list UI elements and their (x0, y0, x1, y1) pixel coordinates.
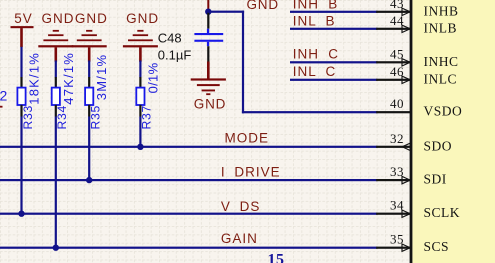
svg-text:INH B: INH B (293, 0, 339, 12)
pin 43 INHB (376, 0, 458, 18)
pin 44 INLB (376, 13, 457, 36)
svg-text:R37: R37 (140, 105, 154, 129)
svg-text:32: 32 (390, 131, 404, 146)
resistor R37 body (136, 88, 144, 105)
clipped mark (left edge) (0, 106, 3, 108)
svg-text:0/1%: 0/1% (145, 62, 160, 93)
svg-text:MODE: MODE (225, 131, 270, 146)
capacitor C48 plate2 (194, 40, 223, 42)
svg-text:SCLK: SCLK (424, 205, 461, 220)
power stub to GND (below C48) (207, 62, 210, 79)
svg-text:I DRIVE: I DRIVE (221, 165, 281, 180)
ground GND (above R35) (72, 11, 108, 62)
ground GND (above R37) (123, 11, 159, 62)
svg-text:V DS: V DS (221, 199, 261, 214)
wire R35 to I_DRIVE (88, 117, 90, 182)
svg-text:GND: GND (42, 11, 75, 26)
wire R34 to GAIN (55, 117, 57, 249)
wire 5V to R33 (20, 47, 22, 78)
svg-text:INL B: INL B (293, 13, 336, 28)
pin C48.1 (207, 12, 209, 29)
ground GND (above R34) (38, 11, 74, 62)
svg-text:INL C: INL C (293, 64, 337, 79)
resistor R34 body (52, 88, 60, 105)
wire GND to R34 (55, 61, 57, 78)
wire INL_B net (290, 28, 378, 30)
pin R35.2 (88, 105, 90, 117)
wire VSDO net (vertical) (242, 11, 244, 114)
svg-text:5V: 5V (14, 11, 33, 26)
junction C48/VSDO (205, 9, 211, 15)
svg-text:GND: GND (194, 96, 226, 111)
wire INH_B net (290, 11, 378, 13)
svg-text:INLC: INLC (424, 71, 458, 86)
pin 46 INLC (376, 64, 457, 87)
svg-text:SCS: SCS (424, 239, 450, 254)
capacitor C48 lead1 (207, 29, 209, 34)
resistor R33 body (17, 88, 25, 105)
capacitor C48 lead2 (207, 42, 209, 46)
pin 33 SDI (376, 164, 447, 187)
pin R34.1 (55, 77, 57, 88)
svg-text:INLB: INLB (424, 20, 458, 35)
junction R35/I_DRIVE (86, 177, 92, 183)
pin R33.1 (20, 77, 22, 88)
svg-text:3M/1%: 3M/1% (94, 54, 109, 100)
svg-text:47K/1%: 47K/1% (61, 52, 76, 105)
svg-text:2: 2 (0, 88, 8, 104)
svg-text:GND: GND (75, 11, 108, 26)
svg-text:15: 15 (268, 252, 285, 263)
svg-text:R34: R34 (55, 105, 69, 129)
pin 45 INHC (376, 46, 458, 69)
svg-text:INHB: INHB (424, 3, 459, 18)
wire GND to R37 (139, 61, 141, 78)
IC U1 left border (410, 0, 413, 263)
wire GAIN net (0, 247, 378, 249)
pin C48.2 (207, 46, 209, 61)
svg-text:INH C: INH C (293, 46, 339, 61)
pin 34 SCLK (376, 198, 460, 221)
capacitor C48 plate1 (194, 33, 223, 35)
pin 40 VSDO (376, 96, 462, 119)
junction R34/GAIN (53, 245, 59, 251)
wire R37 to MODE (139, 117, 141, 148)
wire V_DS net (0, 213, 378, 215)
pin R37.1 (139, 77, 141, 88)
svg-text:INHC: INHC (424, 54, 459, 69)
wire INL_C net (290, 79, 378, 81)
IC U1 body (412, 0, 495, 263)
svg-text:GAIN: GAIN (221, 231, 258, 246)
svg-text:40: 40 (390, 96, 404, 111)
wire I_DRIVE net (0, 179, 378, 181)
power stub GND (top) (207, 0, 209, 12)
svg-text:GND: GND (126, 11, 159, 26)
wire GND to R35 (88, 61, 90, 78)
pin 35 SCS (376, 232, 449, 255)
svg-text:R33: R33 (21, 105, 35, 129)
wire VSDO net (junction to corner) (207, 11, 244, 13)
wire VSDO net (to pin 40) (242, 111, 378, 113)
wire R33 to V_DS (20, 117, 22, 215)
wire INH_C net (290, 61, 378, 63)
svg-text:VSDO: VSDO (424, 104, 463, 119)
junction R33/V_DS (18, 211, 24, 217)
pin 32 SDO (376, 131, 452, 154)
wire MODE net (0, 146, 378, 148)
pin R34.2 (55, 105, 57, 117)
svg-text:18K/1%: 18K/1% (27, 52, 42, 105)
svg-text:SDI: SDI (424, 172, 447, 187)
pin R35.1 (88, 77, 90, 88)
junction R37/MODE (137, 144, 143, 150)
resistor R35 body (85, 88, 93, 105)
svg-text:R35: R35 (89, 105, 103, 129)
svg-text:0.1µF: 0.1µF (158, 48, 192, 63)
power symbol 5V (11, 11, 34, 47)
ground GND (below C48) (191, 78, 227, 111)
svg-text:SDO: SDO (424, 138, 453, 153)
pin R33.2 (20, 105, 22, 117)
svg-text:C48: C48 (158, 30, 182, 45)
svg-text:GND: GND (247, 0, 279, 12)
pin R37.2 (139, 105, 141, 117)
